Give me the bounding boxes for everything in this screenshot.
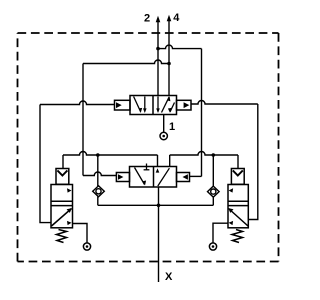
- svg-text:X: X: [165, 271, 173, 283]
- svg-text:4: 4: [173, 12, 180, 24]
- svg-text:2: 2: [144, 13, 150, 25]
- svg-text:1: 1: [169, 121, 175, 133]
